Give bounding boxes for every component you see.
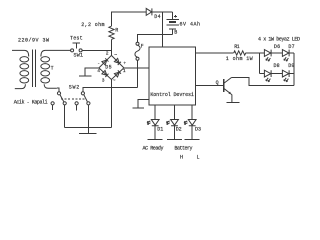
svg-text:B: B xyxy=(174,29,177,35)
switch SW2 pole1 common contact xyxy=(57,92,60,95)
LED D9 xyxy=(282,70,289,77)
switch SW2 open contact stub middle xyxy=(75,102,78,105)
switch SW1 contacts xyxy=(71,49,74,52)
switch SW2 open contact stub left xyxy=(51,102,54,105)
wire bridge AC bottom down to SW2 rail xyxy=(110,80,112,128)
wire LED D1 to ground xyxy=(154,126,156,140)
svg-text:D5: D5 xyxy=(105,64,111,70)
svg-text:Test: Test xyxy=(70,36,83,42)
ground under Q xyxy=(226,101,239,103)
svg-text:H: H xyxy=(180,154,183,160)
LED D3 light arrows xyxy=(184,121,187,123)
wire box right to R1 xyxy=(195,52,233,54)
svg-text:4: 4 xyxy=(97,68,100,74)
svg-text:SW2: SW2 xyxy=(69,84,80,90)
LED D2 light arrows xyxy=(166,121,169,123)
LED D1 xyxy=(151,120,159,126)
svg-text:Battery: Battery xyxy=(175,146,193,152)
wire transformer to SW2 pole1 xyxy=(57,88,59,92)
bridge diode upper-left xyxy=(102,58,109,65)
svg-text:L: L xyxy=(197,154,200,160)
switch SW2 mechanical link dashed xyxy=(61,98,85,100)
svg-text:2,2 ohm: 2,2 ohm xyxy=(81,22,104,28)
wire box bottom to LED D3 xyxy=(191,105,193,120)
LED D2 xyxy=(171,120,179,126)
bridge rectifier D5 outline xyxy=(99,55,124,79)
battery plus sign xyxy=(174,15,177,18)
LED D9 light arrows xyxy=(284,78,286,81)
svg-text:F: F xyxy=(141,43,144,49)
transformer T primary top lead xyxy=(12,50,29,56)
transformer T secondary bottom lead xyxy=(44,84,57,88)
wire LED row bottom xyxy=(260,73,295,75)
svg-text:D9: D9 xyxy=(288,63,294,69)
wire LED D2 to ground xyxy=(174,126,176,140)
resistor R xyxy=(109,26,114,39)
LED D6 xyxy=(264,50,271,57)
resistor R1 xyxy=(234,51,246,55)
wire SW2 throws down to rail xyxy=(65,105,89,128)
wire SW1 right to resistor node xyxy=(82,49,111,51)
svg-text:D2: D2 xyxy=(176,127,182,133)
bridge diode upper-right xyxy=(114,58,121,65)
svg-text:3: 3 xyxy=(102,77,105,83)
svg-text:1 ohm 1W: 1 ohm 1W xyxy=(226,56,253,62)
wire bridge plus rail to control box xyxy=(124,67,149,69)
svg-text:T: T xyxy=(51,65,54,71)
wire LED D3 to ground xyxy=(191,126,193,140)
svg-text:R: R xyxy=(115,28,118,34)
wire Q emitter to ground xyxy=(230,94,232,103)
svg-text:1: 1 xyxy=(123,68,126,74)
switch SW2 pole2 wire from common up and right to fuse line xyxy=(83,87,138,91)
bridge diode lower-right xyxy=(114,70,121,77)
svg-text:+: + xyxy=(123,61,126,66)
wire LED row top xyxy=(260,52,295,54)
LED D7 xyxy=(282,50,289,57)
LED D1 light arrows xyxy=(147,121,150,123)
transistor Q xyxy=(223,79,225,92)
svg-text:R1: R1 xyxy=(234,44,240,50)
fuse F xyxy=(136,42,139,45)
LED D3 xyxy=(188,120,196,126)
transformer T secondary top lead xyxy=(41,50,71,56)
switch SW1 pushbutton actuator xyxy=(73,43,81,48)
wire fuse top corner xyxy=(138,35,163,43)
ground under LED D3 xyxy=(185,138,200,140)
transformer T core xyxy=(32,50,35,88)
wire D4 to battery corner xyxy=(152,11,172,13)
svg-text:D8: D8 xyxy=(274,63,280,69)
svg-text:D4: D4 xyxy=(154,14,160,20)
switch SW2 throw contact pole2 xyxy=(87,102,90,105)
ground at box left xyxy=(132,107,144,109)
wire vertical node to control box top xyxy=(161,12,163,47)
ground bridge minus xyxy=(79,75,91,77)
svg-text:SW1: SW1 xyxy=(74,53,84,59)
battery B plates xyxy=(166,19,179,25)
svg-text:D1: D1 xyxy=(157,127,163,133)
LED D8 light arrows xyxy=(266,78,268,81)
svg-text:AC Ready: AC Ready xyxy=(143,146,164,152)
control box Kontrol Devresi xyxy=(149,47,195,105)
wire top-left corner from R up and right to D4 xyxy=(112,12,147,26)
wire bridge minus to ground xyxy=(85,68,99,76)
svg-text:D3: D3 xyxy=(195,127,201,133)
svg-text:-: - xyxy=(97,61,100,66)
ground under SW2 xyxy=(79,128,96,134)
wire box right to Q base xyxy=(195,85,223,87)
svg-text:6V 4Ah: 6V 4Ah xyxy=(180,21,201,27)
switch SW2 pole1 blade xyxy=(60,95,64,102)
svg-text:4 x 1W beyaz LED: 4 x 1W beyaz LED xyxy=(258,36,300,42)
bridge diode lower-left xyxy=(102,70,109,77)
wire box bottom to LED D1 xyxy=(154,105,156,120)
svg-text:Q: Q xyxy=(216,80,219,86)
svg-text:Acik - Kapali: Acik - Kapali xyxy=(14,99,48,105)
svg-text:Kontrol Devresi: Kontrol Devresi xyxy=(150,92,194,98)
wire SW2 bottom rail xyxy=(65,127,112,129)
LED D6 light arrows xyxy=(266,57,268,60)
LED D7 light arrows xyxy=(284,57,286,60)
ground under LED D2 xyxy=(167,138,182,140)
LED D8 xyxy=(264,70,271,77)
wire R1 to LED block xyxy=(246,52,260,54)
svg-text:D7: D7 xyxy=(288,44,294,50)
switch SW2 throw contact pole1 xyxy=(63,102,66,105)
wire LED block right node xyxy=(293,53,295,85)
svg-text:~: ~ xyxy=(114,53,117,58)
wire box left to ground xyxy=(138,100,149,108)
wire Q collector to LED return xyxy=(232,77,295,85)
wire LED block left node xyxy=(259,53,261,74)
svg-text:220/9V 3W: 220/9V 3W xyxy=(18,38,49,44)
wire R bottom to bridge top xyxy=(111,39,113,55)
wire box bottom to LED D2 xyxy=(174,105,176,120)
svg-text:D6: D6 xyxy=(274,44,280,50)
transformer T primary bottom lead xyxy=(15,84,26,88)
diode D4 xyxy=(146,8,152,15)
svg-text:2: 2 xyxy=(106,51,109,57)
battery B leads xyxy=(138,12,173,35)
switch SW2 pole2 common contact xyxy=(81,92,84,95)
wire fuse bottom down to SW2 line xyxy=(137,60,139,87)
ground under LED D1 xyxy=(148,138,163,140)
transformer T secondary winding xyxy=(41,57,50,83)
svg-text:~: ~ xyxy=(113,79,116,84)
switch SW2 pole2 blade xyxy=(84,95,87,102)
transformer T primary winding xyxy=(20,57,29,83)
